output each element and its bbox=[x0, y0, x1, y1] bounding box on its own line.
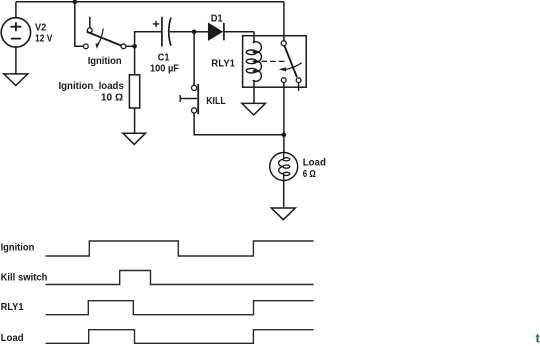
svg-text:Ignition: Ignition bbox=[88, 56, 122, 67]
wire V2 bottom bbox=[15, 47, 17, 74]
diode D1 bbox=[209, 23, 254, 40]
wire top rail bbox=[16, 1, 284, 3]
C1 curved negative plate bbox=[169, 18, 171, 46]
C1 polarity plus sign bbox=[153, 21, 159, 27]
relay RLY1 coil bbox=[246, 41, 261, 82]
wire top rail down to relay common bbox=[283, 2, 285, 41]
wire D1 to relay coil bbox=[224, 31, 254, 33]
wire relay NO terminal down to load bbox=[283, 83, 285, 153]
waveform Load bbox=[46, 330, 314, 344]
svg-text:t: t bbox=[536, 331, 540, 346]
wire node up to C1 bbox=[135, 32, 162, 47]
wire down into relay coil bbox=[253, 32, 255, 42]
lamp filament coil bbox=[279, 153, 290, 181]
relay NO terminal bbox=[281, 78, 286, 83]
svg-text:V2: V2 bbox=[35, 23, 47, 34]
ground below relay coil bbox=[242, 103, 266, 115]
node junction right of C1 bbox=[192, 30, 197, 35]
ignition right terminal bbox=[121, 44, 126, 49]
C1 positive plate bbox=[161, 17, 163, 47]
wire V2 top bbox=[15, 2, 17, 18]
svg-text:12 V: 12 V bbox=[35, 34, 53, 45]
wire C1 to node bbox=[170, 31, 194, 33]
timing waveforms bbox=[46, 241, 314, 343]
svg-text:D1: D1 bbox=[211, 14, 223, 25]
waveform Kill switch bbox=[46, 271, 314, 285]
svg-text:Ignition: Ignition bbox=[1, 242, 35, 253]
ground below load bbox=[271, 208, 295, 220]
relay RLY1 outline box bbox=[243, 36, 307, 87]
wire node down to resistor bbox=[134, 46, 136, 75]
svg-text:10 Ω: 10 Ω bbox=[101, 93, 123, 104]
KILL contact bar bbox=[197, 84, 199, 114]
relay NC terminal bbox=[296, 78, 301, 83]
wire ignition switch to node bbox=[126, 45, 135, 47]
wire resistor to ground bbox=[134, 108, 136, 133]
ground below V2 bbox=[4, 74, 28, 86]
lamp circle bbox=[270, 153, 298, 181]
load lamp bbox=[270, 153, 298, 209]
svg-text:C1: C1 bbox=[158, 52, 170, 63]
wire node down to KILL bbox=[193, 32, 195, 85]
wire KILL bottom to load node bbox=[194, 113, 284, 135]
KILL plunger cap bbox=[179, 95, 181, 102]
voltage source V2 body bbox=[1, 18, 30, 47]
pushbutton KILL bbox=[180, 32, 284, 135]
node junction on top rail bbox=[73, 0, 78, 4]
resistor Ignition_loads bbox=[129, 46, 139, 133]
relay dashed actuation line bbox=[262, 60, 286, 62]
ignition upper terminal bbox=[87, 28, 92, 33]
waveform RLY1 bbox=[46, 301, 314, 315]
wire top rail down to ignition switch bbox=[75, 2, 84, 47]
V2 plus sign bbox=[11, 22, 22, 31]
relay switch blade bbox=[284, 46, 297, 78]
ignition actuation arrowhead bbox=[95, 43, 99, 49]
ignition left terminal bbox=[83, 44, 88, 49]
ignition upper terminal stub bbox=[89, 17, 91, 28]
ground below resistor bbox=[123, 133, 146, 144]
node junction right of ignition switch bbox=[132, 44, 137, 49]
relay common terminal bbox=[281, 41, 286, 46]
relay actuation arrow shaft bbox=[286, 63, 302, 70]
svg-text:100 µF: 100 µF bbox=[150, 64, 179, 75]
wire node to diode bbox=[194, 31, 209, 33]
svg-text:Ignition_loads: Ignition_loads bbox=[59, 81, 125, 92]
relay NC terminal stub bbox=[298, 83, 300, 91]
wire relay coil bottom to ground bbox=[253, 82, 255, 104]
node junction at load top bbox=[282, 133, 287, 138]
svg-text:Load: Load bbox=[303, 158, 326, 169]
svg-text:KILL: KILL bbox=[206, 96, 226, 107]
KILL top terminal bbox=[192, 85, 197, 90]
V2 minus sign bbox=[11, 38, 21, 40]
capacitor C1 bbox=[153, 17, 194, 47]
D1 cathode bar bbox=[223, 23, 225, 40]
resistor body bbox=[129, 75, 139, 108]
ignition actuation arrow shaft bbox=[98, 28, 103, 44]
svg-text:Kill switch: Kill switch bbox=[1, 272, 48, 283]
svg-text:RLY1: RLY1 bbox=[211, 58, 235, 69]
svg-text:6 Ω: 6 Ω bbox=[303, 169, 316, 180]
relay actuation arrowhead bbox=[279, 67, 287, 71]
wire lamp to ground bbox=[283, 181, 285, 209]
KILL plunger bbox=[180, 98, 197, 100]
KILL bottom terminal bbox=[192, 108, 197, 113]
switch Ignition bbox=[83, 17, 126, 49]
waveform Ignition bbox=[46, 241, 314, 256]
svg-text:Load: Load bbox=[1, 333, 24, 344]
svg-text:RLY1: RLY1 bbox=[1, 302, 25, 313]
D1 anode triangle bbox=[209, 24, 222, 40]
ignition blade bbox=[87, 32, 122, 46]
